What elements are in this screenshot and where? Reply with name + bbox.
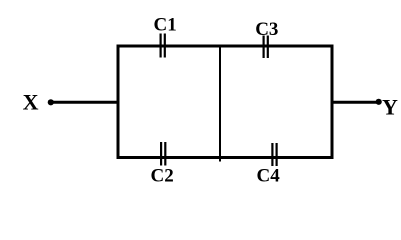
svg-text:C4: C4: [257, 166, 281, 187]
capacitor C2 plates: [161, 142, 165, 166]
svg-text:C2: C2: [151, 166, 174, 187]
wire bottom edge (C2/C4 branch): [117, 156, 334, 159]
wire right edge (node Y riser): [331, 45, 334, 160]
svg-text:C3: C3: [255, 19, 278, 40]
svg-text:C1: C1: [154, 14, 177, 35]
node Y terminal dot: [376, 99, 382, 105]
wire X lead: [51, 101, 119, 104]
capacitor C1 plates: [161, 34, 165, 58]
svg-text:X: X: [23, 90, 39, 115]
node X terminal dot: [48, 99, 54, 105]
capacitor C4 plates: [272, 143, 276, 166]
capacitor C3 plates: [264, 36, 268, 59]
svg-text:Y: Y: [382, 95, 398, 120]
wire Y lead: [331, 101, 379, 104]
wire top edge (C1/C3 branch): [117, 45, 334, 48]
wire middle vertical branch (junction of C1-C3 and C2-C4): [219, 46, 221, 162]
wire left edge (node X riser): [117, 45, 120, 160]
